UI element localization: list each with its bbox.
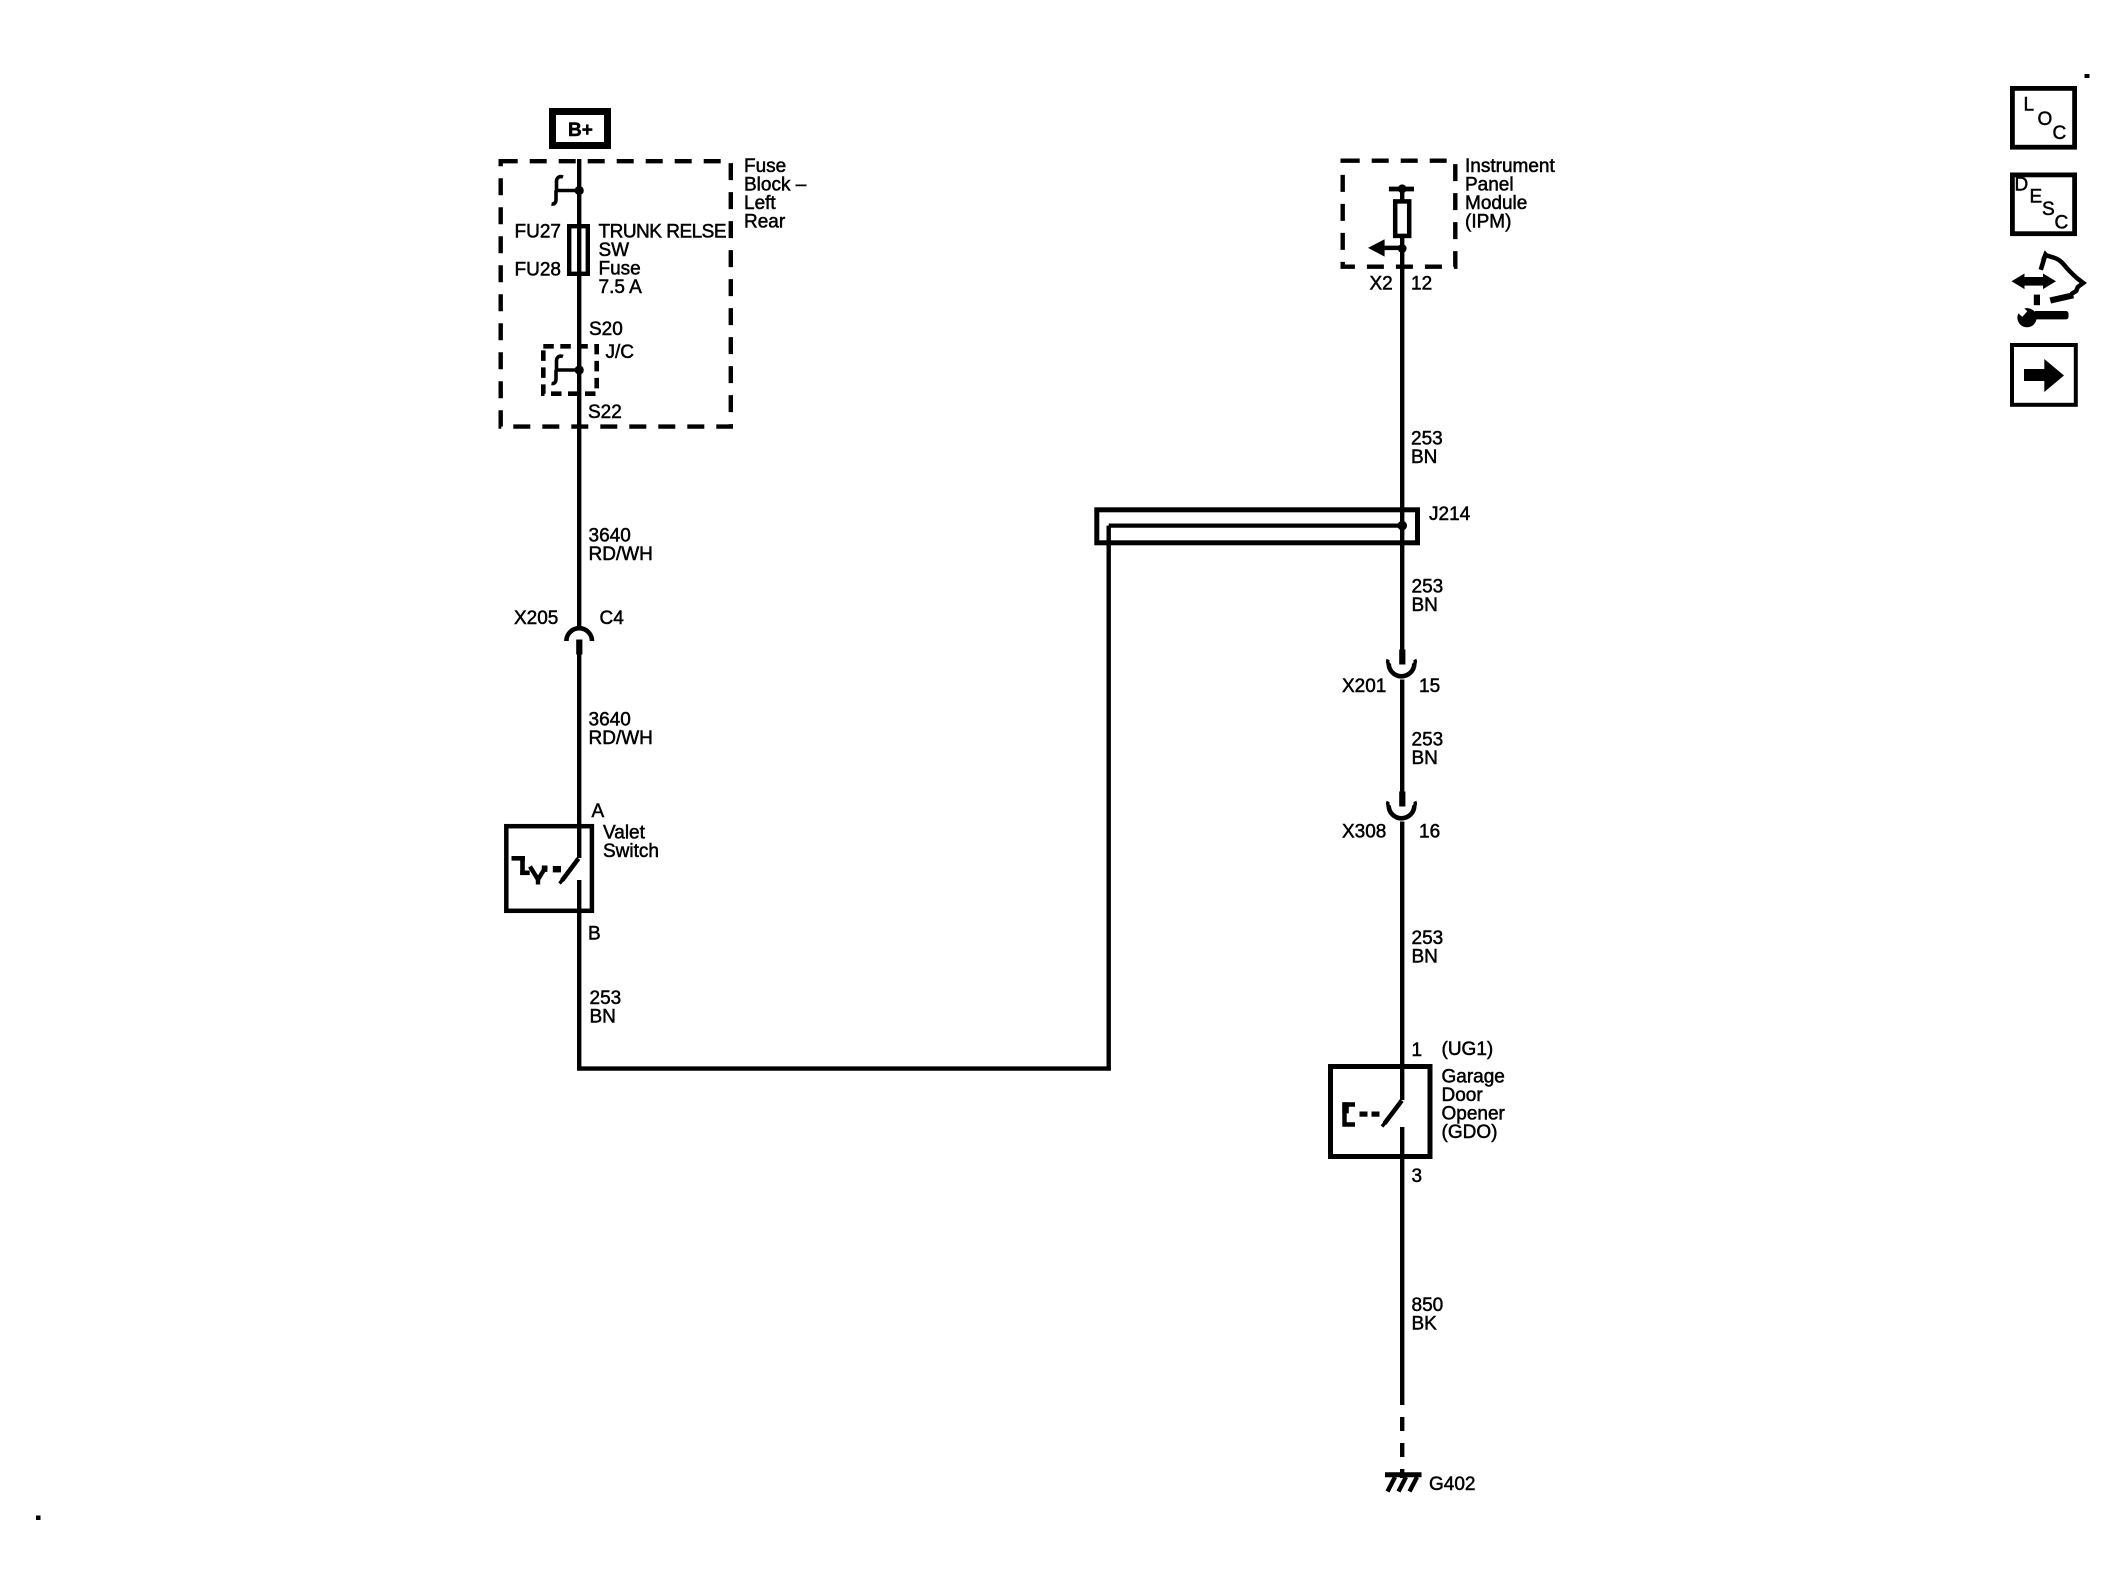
wire: X201 to X308 <box>1400 680 1404 792</box>
stray mark top right <box>2085 74 2090 78</box>
svg-text:S: S <box>2042 199 2055 220</box>
wire label 253 BN (IPM to J214) <box>1411 429 1443 469</box>
svg-text:D: D <box>2015 175 2029 196</box>
svg-text:BN: BN <box>1412 748 1438 769</box>
svg-text:X201: X201 <box>1342 676 1386 697</box>
wire label 850 BK <box>1412 1295 1444 1335</box>
svg-text:E: E <box>2030 187 2043 208</box>
power symbol B+ <box>553 112 608 146</box>
svg-text:A: A <box>592 801 605 822</box>
wire: valet B terminal down, right, and up to J214 <box>579 526 1108 1069</box>
fuse block - left rear dashed box <box>501 161 731 426</box>
svg-text:S22: S22 <box>588 402 622 423</box>
splice S20/S22 hook symbol <box>552 356 584 384</box>
svg-text:RD/WH: RD/WH <box>589 544 653 565</box>
svg-text:15: 15 <box>1419 676 1440 697</box>
svg-text:G402: G402 <box>1429 1474 1475 1495</box>
svg-text:Switch: Switch <box>603 841 659 862</box>
label Valet Switch <box>603 823 659 863</box>
svg-text:1: 1 <box>1412 1040 1423 1061</box>
label TRUNK RELSE SW Fuse 7.5 A <box>599 222 727 299</box>
IPM internal output arrow <box>1368 236 1407 270</box>
svg-text:7.5 A: 7.5 A <box>599 277 643 298</box>
svg-text:(GDO): (GDO) <box>1442 1122 1498 1143</box>
wire label 253 BN (X308 to GDO) <box>1412 928 1444 968</box>
svg-text:BN: BN <box>1411 447 1437 468</box>
svg-text:3: 3 <box>1412 1166 1423 1187</box>
IPM internal resistor / driver element <box>1395 201 1409 236</box>
IPM dashed box <box>1343 161 1456 267</box>
LOC icon box <box>2012 88 2074 147</box>
svg-text:FU28: FU28 <box>515 260 561 281</box>
svg-text:L: L <box>2024 95 2035 116</box>
svg-text:RD/WH: RD/WH <box>589 728 653 749</box>
wire label 253 BN (J214 to X201) <box>1412 577 1444 617</box>
svg-text:B: B <box>588 924 601 945</box>
IPM internal: top rail with junction dot <box>1389 184 1414 200</box>
svg-text:BK: BK <box>1412 1314 1438 1335</box>
connector X308 (male pin + female cup) <box>1388 792 1416 819</box>
junction connector S20/S22 small dashed box <box>543 346 596 393</box>
svg-text:J214: J214 <box>1429 504 1471 525</box>
connector X205 C4 (female arc + male pin) <box>566 628 592 654</box>
wire label 3640 RD/WH lower <box>589 710 653 750</box>
wire label 3640 RD/WH upper <box>589 526 653 566</box>
svg-text:FU27: FU27 <box>515 222 561 243</box>
svg-text:B+: B+ <box>568 120 593 141</box>
svg-text:12: 12 <box>1411 274 1432 295</box>
svg-text:X308: X308 <box>1342 822 1386 843</box>
svg-text:BN: BN <box>590 1007 616 1028</box>
forward arrow icon box <box>2012 345 2076 405</box>
wire: IPM to X201 <box>1400 267 1404 650</box>
stray mark bottom left <box>36 1516 41 1521</box>
svg-text:BN: BN <box>1412 595 1438 616</box>
fuse FU27/FU28 rectangle <box>569 226 588 274</box>
label Fuse Block - Left Rear <box>744 156 807 233</box>
splice pack J214 rectangle <box>1097 510 1418 543</box>
wire: X308 to GDO <box>1400 822 1404 1101</box>
wire: GDO bottom contact to ground dashes <box>1400 1127 1404 1405</box>
svg-text:X2: X2 <box>1370 274 1393 295</box>
svg-text:(IPM): (IPM) <box>1465 212 1511 233</box>
svg-text:J/C: J/C <box>606 342 635 363</box>
valet switch internals: key glyph, dashed link, blade <box>512 826 580 885</box>
GDO internal switch: E terminal, dashed link, blade <box>1342 1101 1402 1127</box>
wire label 253 BN left <box>590 988 622 1028</box>
garage door opener GDO box <box>1331 1067 1431 1157</box>
svg-text:Rear: Rear <box>744 212 786 233</box>
svg-text:BN: BN <box>1412 947 1438 968</box>
svg-text:O: O <box>2038 109 2053 130</box>
J214 internal wire with junction dot <box>1109 521 1407 531</box>
dashed ground lead <box>1400 1417 1404 1478</box>
svg-text:S20: S20 <box>589 319 623 340</box>
svg-text:X205: X205 <box>514 608 558 629</box>
wire: X205 to valet switch <box>577 654 581 826</box>
label Instrument Panel Module (IPM) <box>1465 156 1555 233</box>
svg-text:(UG1): (UG1) <box>1442 1039 1494 1060</box>
connector-view icon: double arrow, outline arrow, wrench <box>2012 250 2084 327</box>
connector X201 (male pin + female cup) <box>1388 650 1416 677</box>
svg-text:16: 16 <box>1419 822 1440 843</box>
wire: left main vertical from fuse block top to X205 <box>577 159 581 628</box>
DESC icon box <box>2012 175 2074 234</box>
svg-text:C: C <box>2055 213 2069 234</box>
svg-text:C: C <box>2053 123 2067 144</box>
wire label 253 BN (X201 to X308) <box>1412 730 1444 770</box>
ground symbol G402 <box>1385 1475 1422 1492</box>
fusible element symbol S20 top (current hook) <box>552 177 584 205</box>
svg-text:C4: C4 <box>600 608 625 629</box>
valet switch box <box>506 826 592 911</box>
label Garage Door Opener (GDO) <box>1442 1067 1506 1144</box>
